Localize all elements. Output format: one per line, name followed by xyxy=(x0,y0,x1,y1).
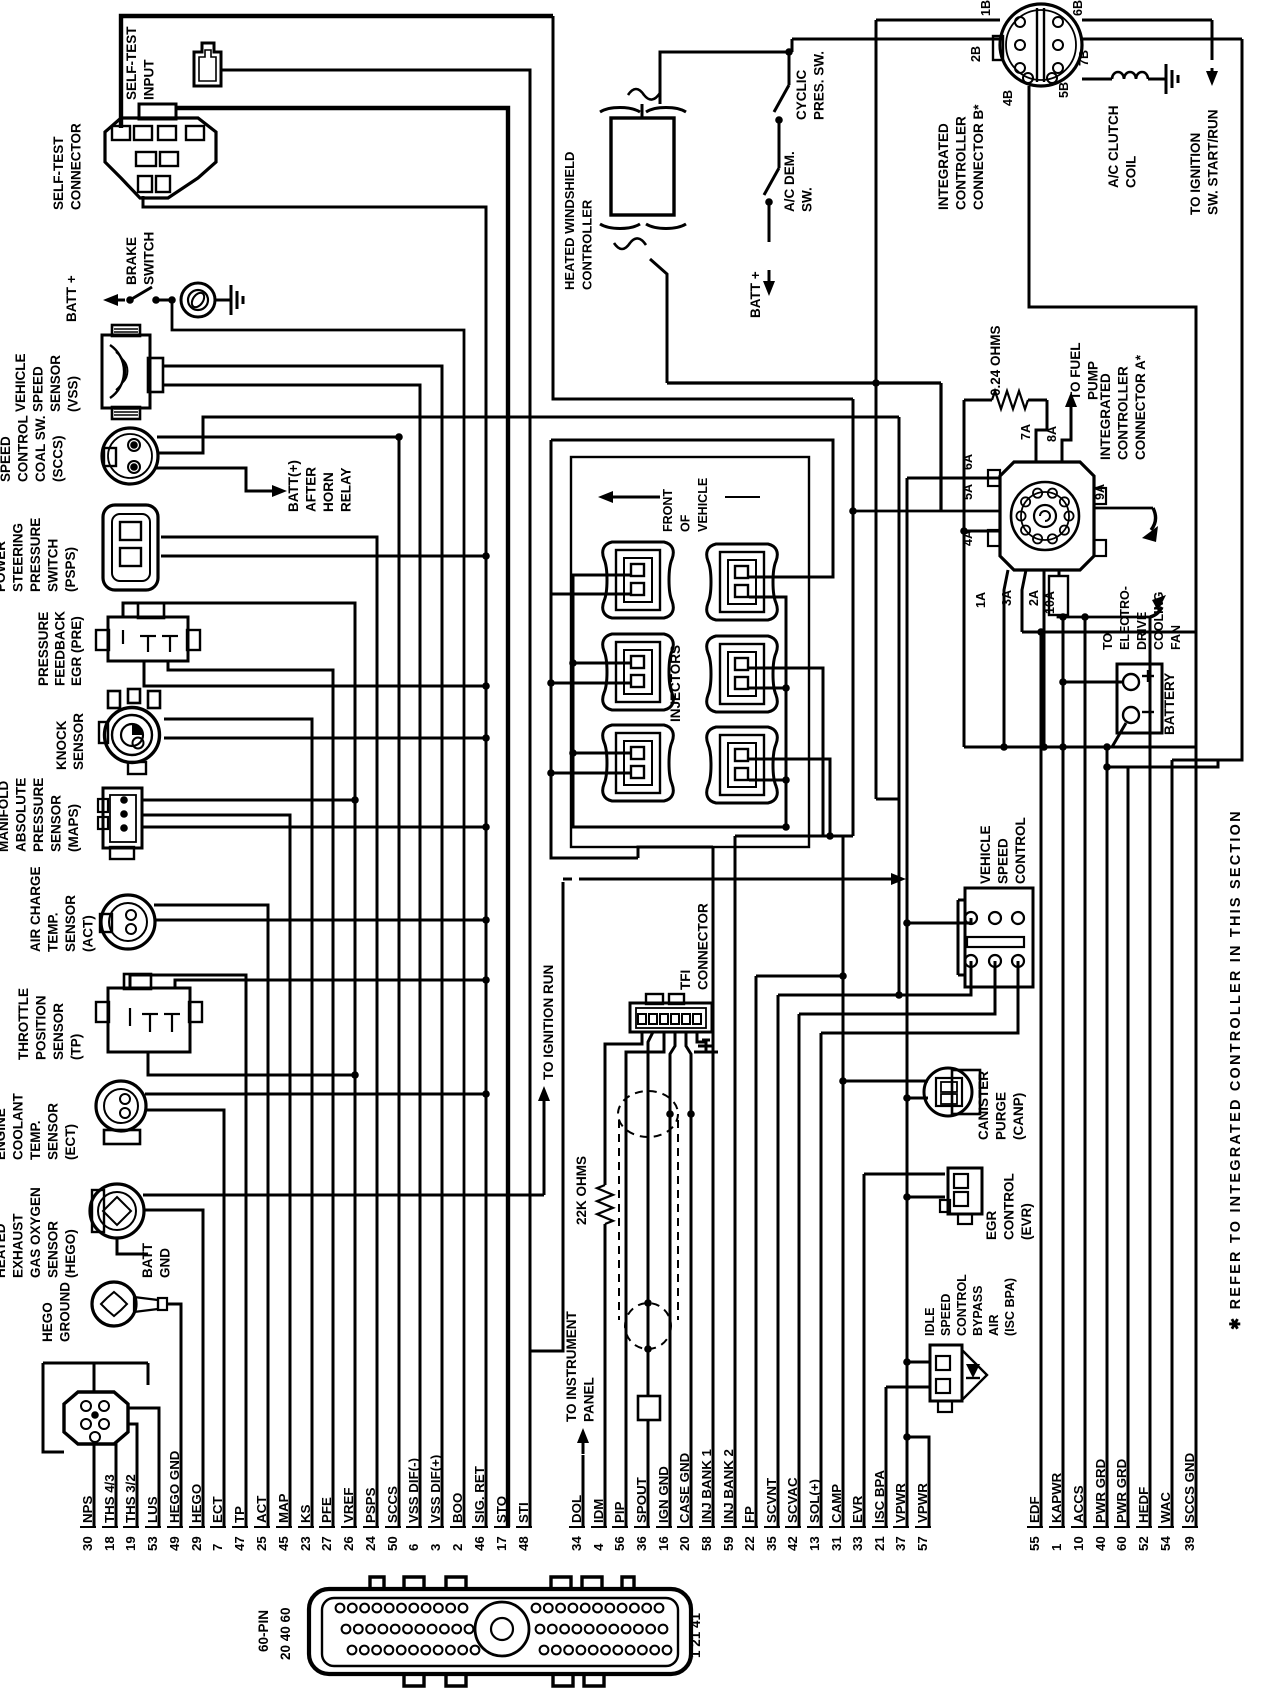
node controller B pin xyxy=(1023,73,1033,83)
svg-text:4B: 4B xyxy=(1001,90,1015,106)
svg-text:FAN: FAN xyxy=(1169,625,1183,650)
node controller B pin xyxy=(1015,63,1025,73)
wire pin7 ECT xyxy=(145,1110,224,1527)
wire resistor right lead xyxy=(1028,399,1047,402)
svg-text:7: 7 xyxy=(210,1544,225,1551)
wire pin45 MAP xyxy=(142,815,290,1527)
wire VREF branch to MAPS xyxy=(142,799,355,802)
wire to lamp xyxy=(156,299,172,302)
svg-text:22: 22 xyxy=(742,1536,757,1551)
node label ECT xyxy=(0,1093,78,1160)
svg-text:48: 48 xyxy=(516,1536,531,1551)
svg-text:45: 45 xyxy=(276,1536,291,1551)
node SIG RET junction PSPS xyxy=(482,552,490,560)
svg-text:CONNECTOR: CONNECTOR xyxy=(69,123,84,210)
node pin 31 CAMP label xyxy=(829,1484,844,1551)
node pin 45 MAP label xyxy=(276,1493,291,1551)
node TFI pin xyxy=(682,1014,690,1024)
node MAPS pin3 xyxy=(120,824,128,832)
connector injector 6 xyxy=(707,727,778,803)
node pin 35 SCVNT label xyxy=(764,1478,779,1551)
wire inj6 top xyxy=(749,759,830,836)
svg-text:ABSOLUTE: ABSOLUTE xyxy=(14,778,29,852)
svg-text:COAL SW.: COAL SW. xyxy=(33,415,48,482)
node label heated windshield xyxy=(562,152,595,290)
wire FP jog xyxy=(756,975,843,978)
node self-test pin 8 xyxy=(156,176,170,192)
node switch chain tap xyxy=(785,48,793,56)
connector injector 4 xyxy=(707,636,778,712)
node TFI pin xyxy=(693,1014,701,1024)
svg-text:(TP): (TP) xyxy=(69,1034,84,1060)
node busB j1 xyxy=(547,679,555,687)
wire pin26 VREF xyxy=(123,603,355,1527)
node pin 54 WAC label xyxy=(1158,1492,1173,1551)
connector SELF-TEST CONNECTOR xyxy=(105,118,216,198)
wire self-test VPWR top line xyxy=(121,16,553,128)
wire resistor loop left down xyxy=(963,400,966,747)
svg-text:BATT +: BATT + xyxy=(748,271,763,318)
wire SCCS pin1 xyxy=(157,436,396,439)
node label to ignition switch xyxy=(1188,110,1221,216)
node pin 42 SCVAC label xyxy=(785,1477,800,1551)
node pin 18 THS 4/3 label xyxy=(102,1474,117,1551)
wire injector loop top xyxy=(551,440,833,577)
svg-text:EGR: EGR xyxy=(984,1210,999,1240)
sensor HEGO heated exhaust gas oxygen xyxy=(90,1184,144,1238)
node DIS pin xyxy=(99,1401,109,1411)
node controller B pin xyxy=(1015,40,1025,50)
wire 8A to fuel pump xyxy=(1062,412,1071,462)
node distributor lower junction a xyxy=(644,1299,652,1307)
node pin 48 STI label xyxy=(516,1502,531,1551)
wire jog y799 xyxy=(876,798,899,801)
svg-text:STEERING: STEERING xyxy=(11,523,26,592)
wire pin23 KS xyxy=(164,719,312,1527)
node label 20 40 60 xyxy=(278,1607,293,1660)
switch PSPS power steering pressure xyxy=(103,505,158,590)
wire DIS top pin xyxy=(93,1363,96,1392)
component heated windshield controller xyxy=(611,118,674,215)
connector DIS module xyxy=(64,1392,128,1444)
svg-text:IDLE: IDLE xyxy=(923,1308,937,1336)
node busC bottom xyxy=(782,823,790,831)
svg-text:FRONT: FRONT xyxy=(661,489,675,532)
node label pin 7B xyxy=(1077,50,1091,66)
node label brake switch xyxy=(124,232,157,285)
node pin 53 LUS label xyxy=(145,1496,160,1551)
node PWR GRD rail junction xyxy=(1103,763,1111,771)
wire VPWR to EGR xyxy=(907,1196,945,1199)
wire DIS pin THS xyxy=(115,1443,118,1444)
node switch contact a xyxy=(126,296,134,304)
wire pin55 EDF xyxy=(1040,632,1043,1527)
connector TFI xyxy=(630,1003,712,1032)
node label pin 6B xyxy=(1071,0,1085,16)
svg-text:CYCLIC: CYCLIC xyxy=(794,70,809,121)
wire pin22 FP xyxy=(755,976,758,1527)
wire 10A to fan 2 xyxy=(1058,615,1150,617)
wire SCCS pin jog xyxy=(396,437,399,440)
node label self-test connector xyxy=(51,123,84,210)
svg-text:33: 33 xyxy=(850,1536,865,1551)
node VPWR junction pins xyxy=(903,1433,911,1441)
wire windshield feed y383 xyxy=(667,381,941,384)
svg-text:60: 60 xyxy=(1114,1536,1129,1551)
wire pin56 PIP xyxy=(626,1032,664,1527)
node MAPS pin1 xyxy=(120,796,128,804)
wire pin16 IGN GND xyxy=(670,1032,675,1527)
svg-text:A/C CLUTCH: A/C CLUTCH xyxy=(1106,106,1121,189)
node label pin 1A xyxy=(974,592,988,608)
node self-test pin 2 xyxy=(134,126,152,140)
svg-text:SENSOR: SENSOR xyxy=(48,355,63,412)
node label cooling fan xyxy=(1101,586,1183,650)
svg-text:(ISC BPA): (ISC BPA) xyxy=(1003,1278,1017,1336)
svg-text:INTEGRATED: INTEGRATED xyxy=(1098,373,1113,460)
svg-text:COOLANT: COOLANT xyxy=(11,1093,26,1160)
svg-text:CONNECTOR: CONNECTOR xyxy=(696,903,711,990)
node label CANP xyxy=(976,1071,1026,1140)
node pin 57 VPWR label xyxy=(915,1483,930,1551)
sensor ACT air charge temp xyxy=(101,895,155,949)
svg-text:55: 55 xyxy=(1027,1536,1042,1551)
svg-text:CONTROL: CONTROL xyxy=(16,415,31,482)
node pin 34 DOL label xyxy=(569,1495,584,1551)
node FP junction xyxy=(839,972,847,980)
node label EVR xyxy=(984,1173,1034,1240)
wire pin2 BOO brake switch xyxy=(172,302,464,1527)
svg-text:40: 40 xyxy=(1093,1536,1108,1551)
svg-text:TO IGNITION: TO IGNITION xyxy=(1188,133,1203,215)
wire distributor shaft SPOUT xyxy=(648,1032,653,1396)
wire 5A feed xyxy=(853,510,1000,513)
node label TFI connector xyxy=(678,903,711,990)
svg-text:47: 47 xyxy=(232,1536,247,1551)
fuse 10A xyxy=(1049,576,1068,615)
svg-text:49: 49 xyxy=(167,1536,182,1551)
svg-text:59: 59 xyxy=(721,1536,736,1551)
node pin 50 SCCS label xyxy=(385,1486,400,1551)
svg-text:6B: 6B xyxy=(1071,0,1085,16)
svg-text:1B: 1B xyxy=(979,0,993,16)
wire pin42 SCVAC xyxy=(798,1014,801,1527)
wire pin40 PWR GRD xyxy=(1106,747,1109,1527)
wire drop x876 xyxy=(875,20,878,799)
svg-text:22K OHMS: 22K OHMS xyxy=(574,1156,589,1225)
svg-text:20: 20 xyxy=(677,1536,692,1551)
node label 0.24 ohms xyxy=(988,325,1003,396)
wire ISC BPA to solenoid xyxy=(886,1386,930,1389)
wire pin34 DOL xyxy=(582,1455,585,1527)
node pin 55 EDF label xyxy=(1027,1496,1042,1551)
wire DIS loop left xyxy=(43,1363,64,1452)
connector inline distributor pickup xyxy=(638,1396,660,1420)
svg-text:58: 58 xyxy=(699,1536,714,1551)
component vehicle speed control servo xyxy=(965,888,1033,987)
svg-text:TEMP.: TEMP. xyxy=(28,1120,43,1160)
wire pin47 TP xyxy=(130,975,246,1527)
node pin 29 HEGO label xyxy=(189,1484,204,1551)
wire PFE to SIG RET xyxy=(144,660,486,686)
wire top line y39 right xyxy=(1082,38,1242,41)
node junction 5A tap xyxy=(849,507,857,515)
wire jog to windshield line xyxy=(791,39,794,52)
wire pin20 CASE GND xyxy=(686,1032,691,1527)
node pin 30 NPS label xyxy=(80,1496,95,1551)
wire drop x941 to 5A xyxy=(939,383,942,511)
node distributor lower junction b xyxy=(644,1345,652,1353)
lamp brake warning xyxy=(181,283,215,317)
node junction SCVNT line xyxy=(895,991,903,999)
node pin 7 ECT label xyxy=(210,1496,225,1551)
svg-text:4: 4 xyxy=(591,1543,606,1551)
sensor TP throttle position xyxy=(108,988,190,1052)
wire pin21 ISC BPA xyxy=(885,1387,888,1527)
svg-text:ENGINE: ENGINE xyxy=(0,1108,8,1160)
node pin 20 CASE GND label xyxy=(677,1452,692,1551)
wire pin33 EVR xyxy=(863,1174,866,1527)
wire pin17 STO self-test xyxy=(176,108,508,1527)
node MAPS pin2 xyxy=(120,810,128,818)
svg-text:(CANP): (CANP) xyxy=(1011,1093,1026,1140)
node CAMP junction xyxy=(839,1077,847,1085)
wire pin57 VPWR xyxy=(907,1437,929,1527)
node pin 3 VSS DIF(+) label xyxy=(428,1455,443,1551)
svg-text:MANIFOLD: MANIFOLD xyxy=(0,781,11,852)
wire drop x853 to injector bus xyxy=(852,399,855,836)
node pin 39 SCCS GND label xyxy=(1182,1452,1197,1551)
svg-text:CONTROLLER: CONTROLLER xyxy=(580,199,595,290)
terminal HEGO ground ring xyxy=(92,1282,136,1326)
svg-text:SPEED: SPEED xyxy=(31,366,46,412)
sensor MAPS manifold absolute pressure xyxy=(103,788,142,848)
wire DIS loop right xyxy=(147,1363,150,1385)
node junction y383 xyxy=(872,379,880,387)
node SIG RET junction MAPS xyxy=(482,823,490,831)
svg-text:PRESSURE: PRESSURE xyxy=(36,612,51,686)
wire 10A stub xyxy=(1058,570,1061,576)
svg-text:BYPASS: BYPASS xyxy=(971,1286,985,1336)
svg-text:BATT(+): BATT(+) xyxy=(286,460,301,512)
node label controller A xyxy=(1098,354,1148,460)
wire dash segment xyxy=(563,878,572,881)
wire pin25 ACT xyxy=(154,905,268,1527)
node VPWR junction EVR xyxy=(903,1193,911,1201)
node distributor junction xyxy=(666,1110,674,1118)
svg-text:6: 6 xyxy=(406,1544,421,1551)
wire pin10 ACCS xyxy=(1084,617,1087,1527)
node label HEGO ground xyxy=(40,1282,73,1342)
wire inj3 bottom pin xyxy=(551,682,631,685)
node label VSS xyxy=(13,353,81,412)
wire battery negative xyxy=(1112,723,1126,747)
wire right border 1242 to WAC xyxy=(1172,39,1242,760)
node cooling fan arrow 1 xyxy=(1151,508,1156,530)
wire CAMP to canister purge xyxy=(843,1080,928,1083)
svg-text:(PSPS): (PSPS) xyxy=(63,547,78,592)
node label ACT xyxy=(28,866,96,952)
svg-text:SW. START/RUN: SW. START/RUN xyxy=(1206,110,1221,216)
node controller B pin xyxy=(1053,17,1063,27)
svg-text:(ACT): (ACT) xyxy=(81,915,96,952)
svg-text:✱ REFER TO INTEGRATED CONTROLL: ✱ REFER TO INTEGRATED CONTROLLER IN THIS… xyxy=(1228,809,1244,1330)
svg-text:SWITCH: SWITCH xyxy=(46,539,61,592)
node pin 56 PIP label xyxy=(612,1501,627,1551)
node self-test pin 7 xyxy=(138,176,152,192)
svg-text:2A: 2A xyxy=(1027,590,1041,606)
wire pin49 HEGO GND xyxy=(166,1304,181,1527)
connector self-test input plug xyxy=(194,43,221,86)
svg-text:(MAPS): (MAPS) xyxy=(66,804,81,852)
node cooling fan arrow 2 xyxy=(1150,607,1162,617)
svg-text:PRES. SW.: PRES. SW. xyxy=(812,51,827,120)
node pin 23 KS label xyxy=(298,1504,313,1551)
svg-text:HORN: HORN xyxy=(321,472,336,512)
svg-text:VEHICLE: VEHICLE xyxy=(978,825,993,884)
connector injector 5 xyxy=(603,725,674,801)
svg-text:VEHICLE: VEHICLE xyxy=(13,353,28,412)
svg-text:POSITION: POSITION xyxy=(34,995,49,1060)
svg-text:27: 27 xyxy=(319,1536,334,1551)
node label AC clutch coil xyxy=(1106,106,1139,189)
svg-text:53: 53 xyxy=(145,1536,160,1551)
wire inj4 bottom pin xyxy=(749,687,786,690)
wire inj6 bottom pin xyxy=(749,779,786,782)
node ACCS junction xyxy=(1081,613,1089,621)
svg-text:1: 1 xyxy=(1049,1543,1064,1551)
wire controller B feed loop xyxy=(1029,86,1196,632)
node self-test pin 1 xyxy=(112,126,130,140)
node controller A pin xyxy=(1033,489,1042,498)
node pin 58 INJ BANK 1 label xyxy=(699,1449,714,1551)
node front of vehicle arrow xyxy=(598,491,613,503)
node label AC dem sw xyxy=(782,151,815,212)
wire windshield top stub xyxy=(641,104,644,118)
node SIG RET junction ACT xyxy=(482,916,490,924)
wire SOL(+) to speed control xyxy=(821,961,1018,1033)
svg-text:SPEED: SPEED xyxy=(996,838,1011,884)
wire front-of-vehicle tick xyxy=(638,496,660,499)
connector injector 3 xyxy=(603,634,674,710)
svg-text:2B: 2B xyxy=(969,46,983,62)
node pin 40 PWR GRD label xyxy=(1093,1458,1108,1551)
svg-text:30: 30 xyxy=(80,1536,95,1551)
svg-text:HEATED: HEATED xyxy=(0,1223,8,1278)
svg-text:9A: 9A xyxy=(1093,484,1107,500)
node label pin 5A xyxy=(961,484,975,500)
wire pin24 PSPS xyxy=(161,537,377,1527)
node switch contact b xyxy=(152,296,160,304)
node controller A pin xyxy=(1048,534,1057,543)
node controller B pin xyxy=(1053,40,1063,50)
wire lamp to ground xyxy=(215,299,231,302)
node KAPWR junction gnd bus xyxy=(1059,743,1067,751)
svg-text:50: 50 xyxy=(385,1536,400,1551)
svg-text:HEGO: HEGO xyxy=(40,1302,55,1342)
svg-text:0.24 OHMS: 0.24 OHMS xyxy=(988,325,1003,396)
node label pin 4B xyxy=(1001,90,1015,106)
svg-text:PURGE: PURGE xyxy=(994,1092,1009,1140)
wire inj4 top to bank2 xyxy=(749,668,823,836)
svg-text:26: 26 xyxy=(341,1536,356,1551)
node busC j2 xyxy=(782,776,790,784)
wire pin60 PWR GRD xyxy=(1127,767,1130,1527)
node self-test pin 6 xyxy=(160,152,178,166)
wire inj3 top pin xyxy=(573,662,631,665)
resistor 22K OHMS xyxy=(597,1185,613,1224)
svg-text:19: 19 xyxy=(123,1536,138,1551)
node VREF-TP junction xyxy=(351,1071,359,1079)
wire pin52 HEDF xyxy=(1149,617,1152,1527)
wire to batt arrow xyxy=(768,202,771,242)
sensor ECT engine coolant temp xyxy=(96,1081,146,1131)
node AC dem contact xyxy=(765,198,773,206)
node label vehicle speed control xyxy=(978,817,1028,884)
svg-text:SELF-TEST: SELF-TEST xyxy=(51,136,66,210)
node VREF-MAPS junction xyxy=(351,796,359,804)
svg-text:SENSOR: SENSOR xyxy=(51,1003,66,1060)
wire VPWR to ISC xyxy=(907,1361,930,1364)
svg-text:CONTROLLER: CONTROLLER xyxy=(954,116,969,210)
node battery negative terminal xyxy=(1123,707,1139,723)
wire pin4 IDM lower xyxy=(604,1224,607,1527)
wire self-test top pin stub xyxy=(175,108,178,120)
svg-text:GND: GND xyxy=(158,1248,173,1278)
node EDF junction xyxy=(1037,628,1045,636)
wire 2A drop xyxy=(1043,570,1046,747)
node 4A tap xyxy=(960,527,968,535)
node label to instrument panel xyxy=(564,1310,597,1422)
svg-text:THROTTLE: THROTTLE xyxy=(16,988,31,1060)
wire PSPS to SIG RET xyxy=(161,555,486,558)
svg-text:39: 39 xyxy=(1182,1536,1197,1551)
wire pin13 SOL(+) xyxy=(820,1033,823,1527)
wire pin48 STI self-test input xyxy=(221,70,530,1527)
node PWR GRD junction xyxy=(1103,743,1111,751)
wire pin59 INJ BANK 2 xyxy=(734,836,737,1527)
svg-text:20 40 60: 20 40 60 xyxy=(278,1607,293,1660)
svg-text:2: 2 xyxy=(450,1544,465,1551)
sensor PFE pressure feedback EGR xyxy=(108,617,188,661)
svg-text:13: 13 xyxy=(807,1536,822,1551)
wire pin3 VSS DIF(+) xyxy=(162,366,442,1527)
svg-text:(VSS): (VSS) xyxy=(66,376,81,412)
svg-text:PRESSURE: PRESSURE xyxy=(28,518,43,592)
svg-text:BATTERY: BATTERY xyxy=(1162,673,1177,735)
wire pin19 THS3/2 xyxy=(129,1424,137,1527)
node label pin 10A xyxy=(1043,591,1057,614)
wire pin36 SPOUT lower xyxy=(647,1420,650,1527)
node controller A pin xyxy=(1021,526,1030,535)
node VSC pin b xyxy=(989,912,1001,924)
node label front of vehicle xyxy=(661,478,710,532)
wire feed to VPWR xyxy=(590,878,895,881)
node pin 16 IGN GND label xyxy=(656,1466,671,1551)
ground brake lamp xyxy=(230,285,233,315)
svg-text:SENSOR: SENSOR xyxy=(71,713,86,770)
node bank2 junction xyxy=(826,832,834,840)
node label SCCS xyxy=(0,415,66,482)
svg-text:GROUND: GROUND xyxy=(58,1282,73,1342)
svg-text:23: 23 xyxy=(298,1536,313,1551)
wire pin35 SCVNT xyxy=(777,995,780,1527)
svg-text:PRESSURE: PRESSURE xyxy=(31,778,46,852)
svg-text:POWER: POWER xyxy=(0,541,8,592)
node SIG RET junction TP xyxy=(482,976,490,984)
node label PFE xyxy=(36,611,84,686)
svg-text:3A: 3A xyxy=(1000,590,1014,606)
